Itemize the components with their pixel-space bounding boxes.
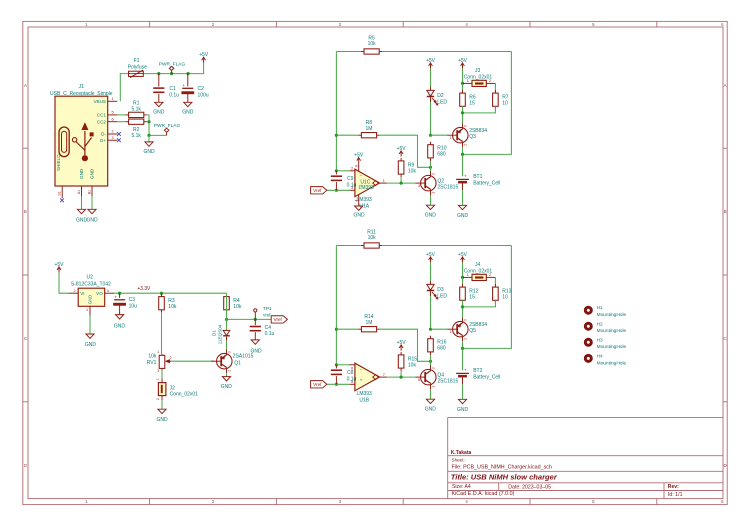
svg-text:6: 6 xyxy=(111,117,113,121)
svg-text:10k: 10k xyxy=(233,304,242,310)
svg-text:R3: R3 xyxy=(168,298,175,304)
svg-text:1M: 1M xyxy=(366,126,373,132)
svg-text:−: − xyxy=(360,174,363,179)
svg-text:2SB834: 2SB834 xyxy=(469,322,487,328)
svg-text:+: + xyxy=(360,379,363,384)
svg-text:C9: C9 xyxy=(347,176,354,182)
svg-text:1: 1 xyxy=(111,97,113,101)
svg-text:1: 1 xyxy=(157,350,159,354)
svg-text:Polyfuse: Polyfuse xyxy=(128,65,147,71)
svg-text:S1: S1 xyxy=(57,191,61,196)
svg-text:+: + xyxy=(464,367,467,372)
svg-text:2: 2 xyxy=(156,398,160,400)
svg-text:Size: A4: Size: A4 xyxy=(452,484,471,490)
svg-text:11EQS04: 11EQS04 xyxy=(218,324,223,344)
svg-text:GND: GND xyxy=(457,407,469,413)
svg-text:Id: 1/1: Id: 1/1 xyxy=(668,492,683,498)
svg-text:4: 4 xyxy=(355,199,359,201)
svg-text:H1: H1 xyxy=(597,305,603,311)
svg-text:15: 15 xyxy=(469,101,475,107)
svg-text:+: + xyxy=(114,294,117,299)
svg-text:C8: C8 xyxy=(347,370,354,376)
svg-text:3: 3 xyxy=(463,125,467,127)
svg-text:+5V: +5V xyxy=(426,252,436,258)
svg-text:Q3: Q3 xyxy=(469,134,476,140)
svg-text:10k: 10k xyxy=(368,41,377,47)
svg-text:C: C xyxy=(24,336,27,341)
svg-text:R9: R9 xyxy=(408,162,415,168)
svg-text:2: 2 xyxy=(351,167,353,171)
svg-text:Q5: Q5 xyxy=(469,328,476,334)
svg-text:B1: B1 xyxy=(87,190,91,194)
svg-text:10k: 10k xyxy=(148,354,157,360)
svg-text:Title: USB NiMH slow charger: Title: USB NiMH slow charger xyxy=(451,473,558,482)
svg-text:USB_C_Receptacle_Simple: USB_C_Receptacle_Simple xyxy=(50,91,113,97)
svg-text:U1B: U1B xyxy=(359,397,369,403)
svg-text:GND: GND xyxy=(425,407,437,413)
svg-text:0.1u: 0.1u xyxy=(265,331,275,337)
svg-text:GND: GND xyxy=(88,295,93,304)
svg-text:J4: J4 xyxy=(475,262,481,268)
svg-text:VI: VI xyxy=(80,291,84,296)
svg-text:+3.3V: +3.3V xyxy=(137,286,151,292)
svg-text:10k: 10k xyxy=(168,304,177,310)
svg-text:Rev:: Rev: xyxy=(668,484,679,490)
svg-text:GND: GND xyxy=(156,417,168,423)
svg-text:Vref: Vref xyxy=(313,382,322,387)
svg-text:S-812C33A_T042: S-812C33A_T042 xyxy=(71,281,111,287)
svg-text:C2: C2 xyxy=(198,86,205,92)
svg-text:2: 2 xyxy=(489,79,491,83)
svg-text:C: C xyxy=(724,336,727,341)
svg-text:1M: 1M xyxy=(366,320,373,326)
svg-text:LED: LED xyxy=(437,99,447,105)
svg-text:3: 3 xyxy=(418,184,420,188)
svg-text:R7: R7 xyxy=(502,94,509,100)
svg-text:Q2: Q2 xyxy=(437,178,444,184)
svg-text:+5V: +5V xyxy=(54,262,64,268)
svg-text:D3: D3 xyxy=(437,287,444,293)
svg-text:J3: J3 xyxy=(475,68,481,74)
svg-text:BT2: BT2 xyxy=(473,368,482,374)
svg-text:2SC1815: 2SC1815 xyxy=(437,379,458,385)
svg-text:−: − xyxy=(360,368,363,373)
svg-text:10: 10 xyxy=(502,295,508,301)
svg-text:GND: GND xyxy=(90,168,95,179)
svg-text:1: 1 xyxy=(467,79,469,83)
svg-text:10k: 10k xyxy=(408,169,417,175)
svg-text:PWR_FLAG: PWR_FLAG xyxy=(154,123,181,129)
svg-text:1: 1 xyxy=(467,273,469,277)
svg-text:5: 5 xyxy=(418,378,420,382)
svg-text:2: 2 xyxy=(463,144,467,146)
svg-text:10k: 10k xyxy=(368,235,377,241)
svg-text:R10: R10 xyxy=(437,145,446,151)
svg-text:SHIELD: SHIELD xyxy=(56,154,61,171)
svg-text:2: 2 xyxy=(73,289,75,293)
svg-text:D2: D2 xyxy=(437,93,444,99)
svg-text:2: 2 xyxy=(431,367,435,369)
svg-text:1: 1 xyxy=(156,378,160,380)
svg-text:3: 3 xyxy=(107,289,109,293)
svg-text:+5V: +5V xyxy=(458,252,468,258)
svg-text:CC1: CC1 xyxy=(97,113,107,118)
svg-text:3: 3 xyxy=(463,319,467,321)
svg-text:0.1u: 0.1u xyxy=(347,183,357,189)
svg-text:Vref: Vref xyxy=(274,317,283,322)
svg-text:+5V: +5V xyxy=(458,58,468,64)
svg-text:680: 680 xyxy=(437,346,446,352)
svg-text:15: 15 xyxy=(469,295,475,301)
svg-text:MountingHole: MountingHole xyxy=(597,360,627,366)
svg-text:+: + xyxy=(182,83,185,88)
svg-text:Vref: Vref xyxy=(313,188,322,193)
svg-text:100u: 100u xyxy=(198,92,209,98)
svg-text:680: 680 xyxy=(437,152,446,158)
svg-text:MountingHole: MountingHole xyxy=(597,328,627,334)
svg-text:Q4: Q4 xyxy=(437,372,444,378)
svg-text:J1: J1 xyxy=(79,84,85,90)
svg-text:2: 2 xyxy=(489,273,491,277)
svg-text:10: 10 xyxy=(502,101,508,107)
svg-text:+5V: +5V xyxy=(354,152,364,158)
svg-text:GND: GND xyxy=(143,149,155,155)
svg-text:KiCad E.D.A. kicad (7.0.0): KiCad E.D.A. kicad (7.0.0) xyxy=(452,491,515,497)
svg-text:1: 1 xyxy=(450,136,452,140)
svg-text:GND: GND xyxy=(182,109,194,115)
svg-text:1: 1 xyxy=(383,179,385,183)
svg-text:R6: R6 xyxy=(469,94,476,100)
svg-text:Sheet:: Sheet: xyxy=(452,458,465,463)
svg-text:1: 1 xyxy=(431,386,435,388)
svg-text:U2: U2 xyxy=(86,275,93,281)
svg-text:Vref: Vref xyxy=(263,312,272,317)
svg-text:5.1k: 5.1k xyxy=(131,106,141,112)
svg-text:2: 2 xyxy=(111,130,113,134)
svg-text:GND: GND xyxy=(221,384,233,390)
svg-text:H3: H3 xyxy=(597,337,603,343)
svg-text:2SC1815: 2SC1815 xyxy=(437,185,458,191)
svg-text:Date: 2023–03–05: Date: 2023–03–05 xyxy=(508,484,551,490)
svg-text:D: D xyxy=(724,463,727,468)
svg-text:R12: R12 xyxy=(469,288,478,294)
svg-text:8: 8 xyxy=(355,165,359,167)
svg-text:PWR_FLAG: PWR_FLAG xyxy=(159,61,186,67)
svg-text:BT1: BT1 xyxy=(473,174,482,180)
svg-text:CC2: CC2 xyxy=(97,119,107,124)
svg-text:D+: D+ xyxy=(100,138,106,143)
svg-text:MountingHole: MountingHole xyxy=(597,312,627,318)
svg-text:LM393: LM393 xyxy=(359,185,375,191)
svg-text:B: B xyxy=(724,209,727,214)
svg-text:F1: F1 xyxy=(134,58,140,64)
svg-text:Conn_02x01: Conn_02x01 xyxy=(170,392,199,398)
svg-text:R4: R4 xyxy=(233,298,240,304)
svg-text:GND: GND xyxy=(153,109,165,115)
svg-text:+5V: +5V xyxy=(426,58,436,64)
svg-text:GND: GND xyxy=(457,213,469,219)
svg-text:GND: GND xyxy=(79,168,84,179)
svg-text:A: A xyxy=(24,83,27,88)
svg-text:3: 3 xyxy=(227,351,231,353)
svg-text:Q1: Q1 xyxy=(234,360,241,366)
svg-text:+5V: +5V xyxy=(397,146,407,152)
svg-text:2: 2 xyxy=(431,173,435,175)
svg-text:5: 5 xyxy=(111,110,113,114)
svg-text:5.1k: 5.1k xyxy=(131,133,141,139)
svg-text:H4: H4 xyxy=(597,353,603,359)
svg-text:2: 2 xyxy=(227,370,231,372)
svg-text:RV1: RV1 xyxy=(147,360,157,366)
svg-text:A1: A1 xyxy=(77,190,81,194)
svg-text:1: 1 xyxy=(86,308,88,312)
svg-text:1: 1 xyxy=(431,192,435,194)
svg-text:R16: R16 xyxy=(437,339,446,345)
svg-text:Battery_Cell: Battery_Cell xyxy=(473,375,500,381)
svg-text:+5V: +5V xyxy=(199,52,209,58)
svg-text:H2: H2 xyxy=(597,321,603,327)
svg-text:MountingHole: MountingHole xyxy=(597,344,627,350)
svg-text:3: 3 xyxy=(157,369,159,373)
svg-text:GND: GND xyxy=(114,323,126,329)
svg-text:B: B xyxy=(24,209,27,214)
svg-text:+5V: +5V xyxy=(397,340,407,346)
svg-text:C1: C1 xyxy=(169,86,176,92)
svg-text:10k: 10k xyxy=(408,363,417,369)
svg-text:K.Takata: K.Takata xyxy=(451,450,472,456)
svg-text:VBUS: VBUS xyxy=(93,99,106,104)
svg-text:1: 1 xyxy=(450,330,452,334)
svg-text:A: A xyxy=(724,83,727,88)
svg-text:2: 2 xyxy=(170,356,172,360)
svg-text:R13: R13 xyxy=(502,288,511,294)
svg-text:2SB834: 2SB834 xyxy=(469,128,487,134)
svg-text:0.1u: 0.1u xyxy=(169,93,179,99)
svg-text:0.1u: 0.1u xyxy=(347,377,357,383)
svg-text:10u: 10u xyxy=(129,303,138,309)
svg-text:2: 2 xyxy=(463,338,467,340)
svg-text:Battery_Cell: Battery_Cell xyxy=(473,181,500,187)
svg-text:GND: GND xyxy=(354,213,366,219)
svg-text:D: D xyxy=(24,463,27,468)
svg-text:GND: GND xyxy=(425,213,437,219)
svg-text:+: + xyxy=(464,173,467,178)
svg-text:3: 3 xyxy=(111,136,113,140)
svg-text:TP1: TP1 xyxy=(263,306,272,312)
svg-text:File: PCB_USB_NIMH_Charger.kic: File: PCB_USB_NIMH_Charger.kicad_sch xyxy=(452,464,552,470)
svg-text:R15: R15 xyxy=(408,356,417,362)
svg-text:D-: D- xyxy=(101,132,106,137)
svg-text:2SA1015: 2SA1015 xyxy=(233,353,254,359)
svg-text:7: 7 xyxy=(383,373,385,377)
svg-text:GND: GND xyxy=(86,218,98,224)
svg-text:C3: C3 xyxy=(129,297,136,303)
svg-text:LED: LED xyxy=(437,293,447,299)
svg-text:GND: GND xyxy=(85,342,97,348)
svg-text:VO: VO xyxy=(96,291,103,296)
svg-text:LM393: LM393 xyxy=(357,391,373,397)
svg-text:D1: D1 xyxy=(211,330,216,336)
